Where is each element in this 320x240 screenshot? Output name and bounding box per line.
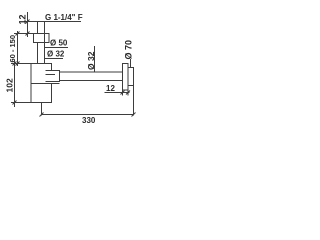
dimension 330: right extension line (133, 86, 135, 116)
svg-text:Ø 50: Ø 50 (50, 39, 68, 48)
svg-text:12: 12 (106, 84, 115, 93)
inlet pipe left edge upper segment (37, 22, 39, 34)
dimension 12 right: tick left (121, 91, 125, 95)
dimension 12 top: tick at bottom (26, 32, 30, 36)
dimension 12 right: tick right (126, 91, 130, 95)
svg-text:Ø 32: Ø 32 (47, 50, 65, 59)
dimension 102: extension line at body bottom (11, 102, 31, 104)
dimension 102: dimension line (14, 60, 16, 107)
label D32 rotated leader line (94, 46, 96, 72)
dimension 12 top: dimension line (27, 12, 29, 37)
wall stub (128, 68, 134, 86)
svg-text:102: 102 (5, 78, 15, 92)
outlet nut internal line (46, 74, 56, 76)
label D70 leader line (130, 59, 132, 68)
svg-text:12: 12 (18, 14, 28, 24)
dimension 330: tick left (40, 113, 44, 117)
inlet pipe right edge (44, 22, 46, 64)
dimension 60-150: tick top (16, 32, 20, 36)
dimension 102: tick bottom (13, 101, 17, 105)
outlet pipe top edge (60, 71, 123, 73)
trap body outline (31, 64, 52, 103)
dimension 12 right: extension line right (127, 90, 129, 96)
wall flange D70 (123, 64, 129, 91)
dimension 60-150: dimension line (17, 31, 19, 66)
outlet pipe bottom edge (60, 80, 123, 82)
trap body cup joint line (31, 83, 60, 85)
dimension 60-150: extension line top (14, 33, 24, 35)
dimension 12 top: tick at top (26, 20, 30, 24)
dimension 12 right: extension line left (122, 90, 124, 96)
outlet nut box (46, 71, 60, 82)
label D50 leader underline (45, 47, 68, 49)
dimension 330: tick right (132, 113, 136, 117)
top edge / leader line under thread label (24, 21, 81, 23)
dimension 12 right: dimension line (105, 92, 130, 94)
svg-text:G 1-1/4" F: G 1-1/4" F (45, 13, 83, 22)
dimension 102/60-150 shared extension line at body top (11, 63, 31, 65)
dimension 330: dimension line (42, 114, 134, 116)
svg-text:330: 330 (82, 116, 96, 125)
dimension 60-150: tick bottom (16, 62, 20, 66)
dimension 330: left extension line (41, 103, 43, 116)
inlet pipe left edge lower segment (37, 43, 39, 64)
label D32 leader underline (45, 58, 63, 60)
nut D50 (34, 34, 50, 43)
svg-text:60 - 150: 60 - 150 (8, 35, 17, 63)
svg-text:Ø 70: Ø 70 (124, 40, 134, 60)
dimension 12 top: extension line at nut top (24, 33, 34, 35)
dimension 102: tick top (13, 62, 17, 66)
